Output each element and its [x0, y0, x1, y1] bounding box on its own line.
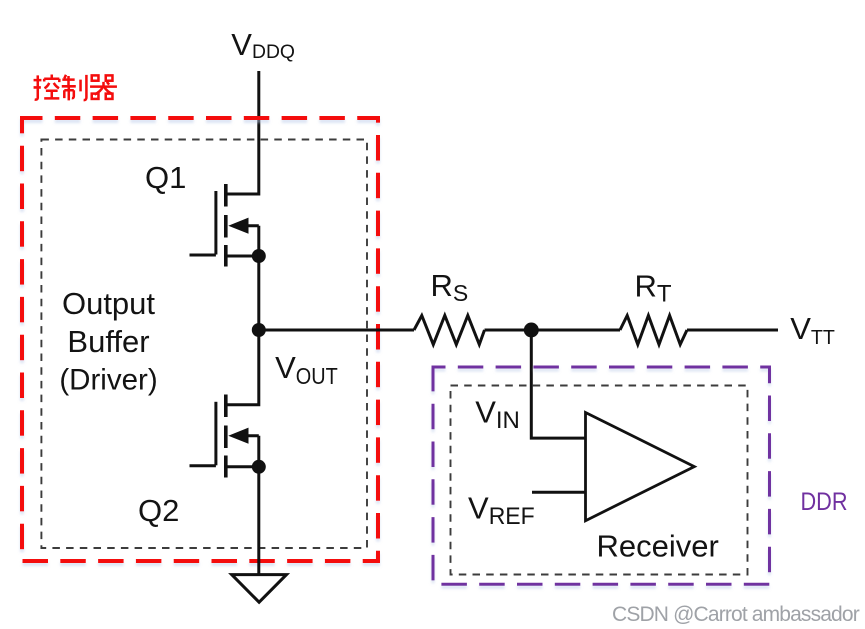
- Q1 body arrow: [228, 218, 248, 234]
- wire Q2 source to ground: [257, 436, 260, 575]
- ground: [232, 575, 287, 603]
- svg-text:DDR: DDR: [801, 488, 848, 516]
- svg-text:Output: Output: [62, 286, 155, 321]
- svg-text:Q1: Q1: [145, 160, 186, 195]
- glyph 制: [62, 75, 87, 100]
- svg-text:VDDQ: VDDQ: [231, 27, 295, 63]
- Q2 source stub: [226, 465, 259, 468]
- node junction dot (VIN tap): [524, 323, 539, 338]
- wire output node to Q2 drain: [226, 330, 259, 405]
- wire RT to VTT: [687, 329, 778, 332]
- svg-text:Q2: Q2: [138, 493, 179, 528]
- transistor Q1: [190, 184, 259, 267]
- Q2 body arrow: [228, 428, 248, 444]
- svg-text:RS: RS: [431, 268, 469, 306]
- red dashed box 控制器 (controller): [22, 118, 378, 561]
- Q1 gate bar: [214, 191, 217, 255]
- svg-text:CSDN @Carrot ambassador: CSDN @Carrot ambassador: [612, 603, 860, 626]
- resistor RT: [620, 316, 687, 345]
- svg-text:VREF: VREF: [468, 490, 535, 530]
- op-amp receiver triangle: [586, 413, 695, 521]
- wire output node to RS: [259, 329, 414, 332]
- Q2 channel segments: [224, 395, 228, 478]
- node VOUT dot: [252, 323, 266, 337]
- label 控制器 (red, drawn glyphs): [34, 75, 117, 101]
- svg-text:VOUT: VOUT: [275, 350, 338, 389]
- svg-text:RT: RT: [635, 268, 672, 307]
- svg-text:VTT: VTT: [790, 311, 835, 349]
- Q2 gate lead: [190, 464, 216, 467]
- svg-text:(Driver): (Driver): [59, 364, 157, 397]
- purple dashed box DDR: [433, 367, 770, 584]
- wire node to VIN: [531, 330, 585, 438]
- Q1 source junction dot: [252, 249, 266, 263]
- wire VDDQ lead: [226, 71, 259, 194]
- svg-text:Buffer: Buffer: [67, 324, 149, 359]
- Q1 body stub: [240, 224, 259, 227]
- Q1 channel segments: [224, 184, 228, 267]
- glyph 控: [34, 75, 60, 100]
- Q2 source junction dot: [252, 460, 266, 474]
- wire Q1 source to output node: [257, 226, 260, 330]
- inner dashed box receiver: [451, 386, 748, 575]
- Q2 body stub: [240, 434, 259, 437]
- resistor RS: [414, 316, 485, 345]
- Q1 source stub: [226, 255, 259, 258]
- wire VREF lead: [532, 491, 586, 494]
- glyph 器: [90, 75, 117, 99]
- svg-text:VIN: VIN: [475, 395, 520, 435]
- inner dashed box: output buffer: [41, 140, 367, 549]
- wire RS to RT: [485, 329, 621, 332]
- Q1 gate lead: [190, 254, 216, 257]
- Q2 gate bar: [214, 402, 217, 466]
- svg-text:Receiver: Receiver: [597, 529, 719, 564]
